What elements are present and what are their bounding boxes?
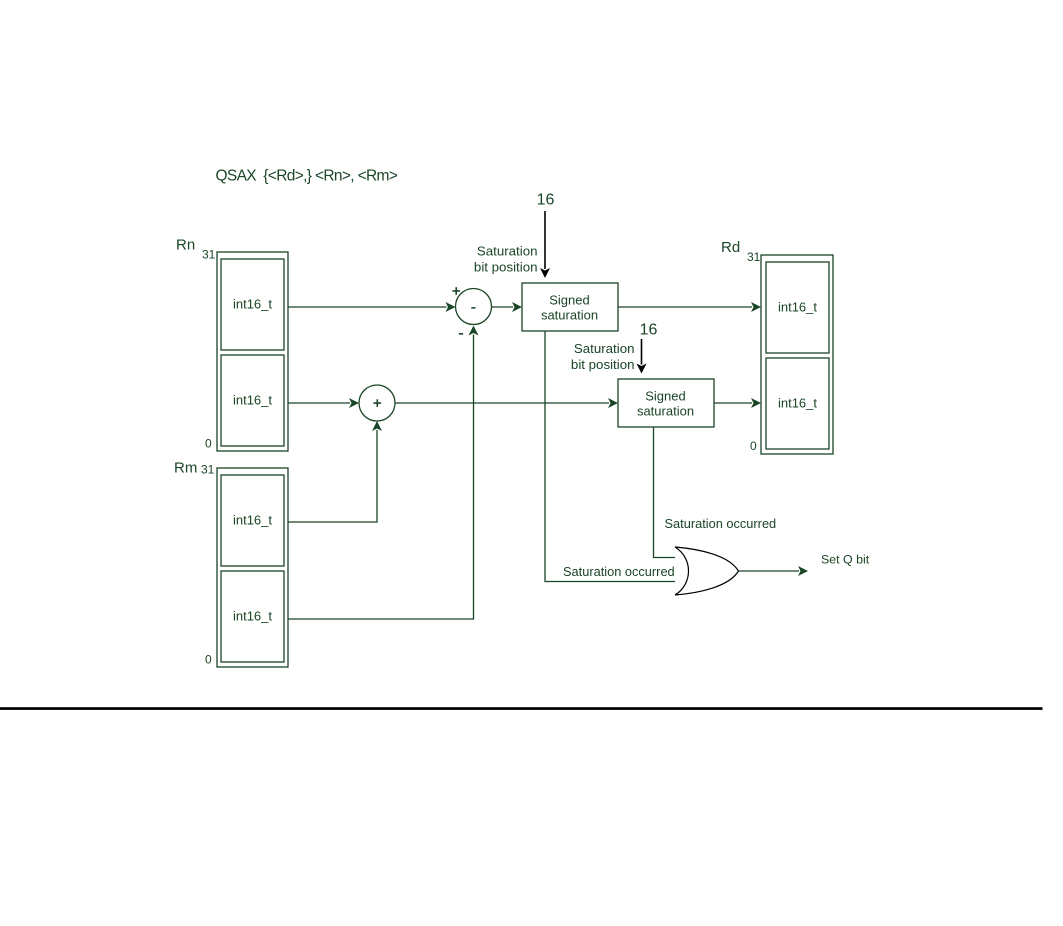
svg-text:bit position: bit position — [474, 260, 538, 275]
svg-text:QSAX {<Rd>,} <Rn>, <Rm>: QSAX {<Rd>,} <Rn>, <Rm> — [216, 168, 398, 185]
svg-text:Rn: Rn — [176, 237, 195, 254]
register Rm top half int16_t cell — [221, 475, 284, 566]
wire subtractor to signed saturation box 1 — [492, 306, 514, 308]
svg-text:0: 0 — [205, 653, 212, 667]
svg-text:saturation: saturation — [637, 404, 694, 419]
wire OR gate output Set Q bit — [739, 570, 800, 572]
svg-text:int16_t: int16_t — [233, 393, 272, 408]
svg-text:Rd: Rd — [721, 239, 740, 256]
adder plus inside — [374, 402, 382, 404]
svg-text:16: 16 — [640, 322, 658, 339]
svg-text:int16_t: int16_t — [233, 513, 272, 528]
svg-text:0: 0 — [205, 437, 212, 451]
svg-text:31: 31 — [202, 248, 216, 262]
wire Rm bottom half to subtractor (horizontal then up) — [288, 335, 474, 620]
svg-text:Rm: Rm — [174, 460, 197, 477]
subtractor plus label — [452, 290, 460, 292]
svg-text:31: 31 — [747, 250, 761, 264]
wire saturation occurred from box2 down to OR gate — [654, 427, 691, 558]
svg-text:Set Q bit: Set Q bit — [821, 553, 870, 567]
svg-text:bit position: bit position — [571, 357, 635, 372]
svg-text:int16_t: int16_t — [778, 300, 817, 315]
svg-text:31: 31 — [201, 463, 215, 477]
wire signed saturation 1 to Rd top — [618, 306, 752, 308]
svg-text:int16_t: int16_t — [233, 609, 272, 624]
subtractor minus inside — [471, 307, 475, 309]
svg-text:Signed: Signed — [549, 293, 589, 308]
subtractor minus label (bottom input) — [459, 333, 463, 335]
wire adder to signed saturation box 2 — [395, 402, 609, 404]
svg-text:int16_t: int16_t — [778, 396, 817, 411]
svg-text:saturation: saturation — [541, 308, 598, 323]
black arrow saturation bit position 2 — [641, 339, 643, 365]
adder circle U2 — [359, 385, 395, 421]
signed saturation box 1 — [522, 283, 618, 331]
svg-text:int16_t: int16_t — [233, 297, 272, 312]
register Rd top half int16_t cell — [766, 262, 829, 353]
svg-text:Saturation occurred: Saturation occurred — [665, 516, 777, 531]
signed saturation box 2 — [618, 379, 714, 427]
wire Rm top half to adder (horizontal then up) — [288, 430, 377, 522]
register Rn outer box — [217, 252, 288, 451]
wire signed saturation 2 to Rd bottom — [714, 402, 752, 404]
svg-text:Signed: Signed — [645, 389, 685, 404]
black arrow saturation bit position 1 — [544, 211, 546, 269]
svg-text:Saturation: Saturation — [477, 244, 538, 259]
register Rn top half int16_t cell — [221, 259, 284, 350]
svg-text:Saturation occurred: Saturation occurred — [563, 564, 675, 579]
register Rm bottom half int16_t cell — [221, 571, 284, 662]
svg-text:Saturation: Saturation — [574, 341, 635, 356]
wire Rn top half to subtractor — [288, 306, 447, 308]
wire Rn bottom half to adder — [288, 402, 350, 404]
subtractor circle U1 — [456, 289, 492, 325]
svg-text:16: 16 — [537, 192, 555, 209]
register Rd bottom half int16_t cell — [766, 358, 829, 449]
svg-text:0: 0 — [750, 439, 757, 453]
bottom horizontal rule — [0, 707, 1043, 710]
register Rm outer box — [217, 468, 288, 667]
wire saturation occurred from box1 down to OR gate — [545, 331, 688, 582]
OR gate — [675, 547, 739, 595]
register Rd outer box — [761, 255, 833, 454]
register Rn bottom half int16_t cell — [221, 355, 284, 446]
